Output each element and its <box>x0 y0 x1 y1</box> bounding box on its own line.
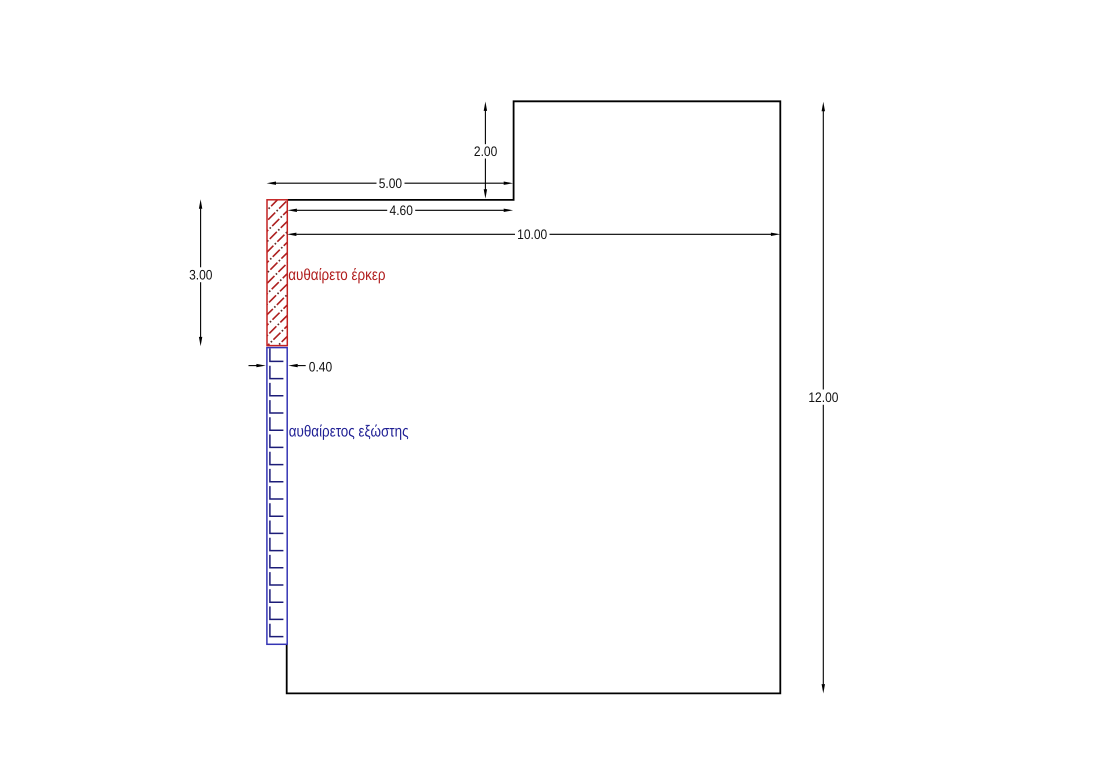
dimension 2.00 (vertical) <box>484 102 487 199</box>
bay window hatch (authereto erker) <box>263 176 291 361</box>
dimension 12.00 (vertical) <box>822 102 825 694</box>
svg-text:12.00: 12.00 <box>808 390 838 405</box>
svg-text:0.40: 0.40 <box>309 360 333 375</box>
bay window border <box>267 200 287 346</box>
svg-text:αυθαίρετο έρκερ: αυθαίρετο έρκερ <box>288 267 385 284</box>
svg-text:10.00: 10.00 <box>517 227 547 242</box>
balcony outline (authairetos exostis) <box>267 348 287 645</box>
dimension 3.00 (vertical) <box>199 199 202 346</box>
svg-text:3.00: 3.00 <box>189 268 213 283</box>
bay window hatch dots <box>263 176 291 361</box>
svg-text:4.60: 4.60 <box>390 203 414 218</box>
balcony railing ladder marks <box>270 349 284 637</box>
svg-text:5.00: 5.00 <box>379 176 403 191</box>
building outline <box>287 101 781 693</box>
dimension 0.40 (horizontal, arrows outside) <box>249 364 306 367</box>
dimension 5.00 (horizontal) <box>267 182 513 185</box>
svg-text:2.00: 2.00 <box>474 144 498 159</box>
dimension 4.60 (horizontal) <box>288 209 514 212</box>
svg-text:αυθαίρετος εξώστης: αυθαίρετος εξώστης <box>289 423 409 440</box>
dimension 10.00 (horizontal) <box>287 233 780 236</box>
